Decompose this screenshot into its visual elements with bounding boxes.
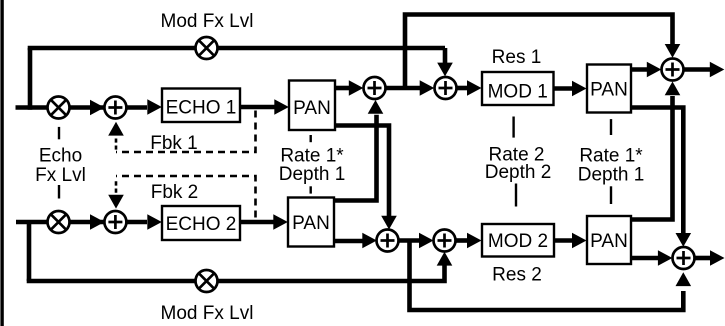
- svg-text:PAN: PAN: [590, 231, 628, 252]
- wire: PAN P3 top output to adder A4: [631, 67, 648, 72]
- multiplier X1 Echo Fx Lvl ch1: [48, 97, 70, 119]
- svg-text:Depth 2: Depth 2: [485, 162, 552, 183]
- wire: top mod rail (y=48): [28, 46, 445, 51]
- tick: below MOD 1: [512, 117, 514, 138]
- svg-text:MOD 1: MOD 1: [488, 82, 548, 103]
- wire: PAN P2 bottom output to adder A2': [334, 239, 363, 244]
- wire: ch2 bypass rail (junction down, y=310, up to output adder A4'): [410, 241, 684, 311]
- wire: PAN P3 bottom output down to adder A4': [631, 108, 683, 234]
- svg-text:PAN: PAN: [293, 98, 331, 119]
- arrowhead: into PAN P1: [274, 99, 289, 115]
- ECHO 2 box: [162, 206, 240, 240]
- wire: A2' to A3': [388, 238, 421, 243]
- wire: ch1 input: [16, 105, 116, 110]
- wire: ch1 branch up to top mod rail: [28, 48, 33, 110]
- adder A4 output sum ch1: [662, 59, 684, 81]
- PAN P3 box: [587, 65, 631, 113]
- wire: PAN P4 bottom output to adder A4': [631, 256, 659, 261]
- arrowhead: into adder A3: [420, 80, 435, 96]
- wire: A1 to ECHO 1: [115, 105, 147, 110]
- PAN P2 box: [288, 198, 334, 247]
- svg-text:Fbk 2: Fbk 2: [151, 182, 199, 203]
- arrowhead: into MOD 1: [467, 80, 482, 96]
- arrowhead: ch1 into adder A1: [90, 100, 105, 116]
- arrowhead: ch2 into adder A1': [90, 214, 105, 230]
- arrowhead: Fbk 1 up into adder A1: [108, 122, 124, 136]
- arrowhead: bottom rail up into adder A3': [437, 252, 453, 266]
- wire: ECHO 2 to PAN P2: [240, 220, 274, 225]
- arrowhead: into adder A2': [362, 233, 377, 249]
- feedback Fbk 1 dotted riser: [115, 139, 118, 150]
- svg-text:Res 1: Res 1: [492, 47, 542, 68]
- wire: ch2 branch down to bottom mod rail: [27, 220, 32, 281]
- ECHO 1 box: [162, 89, 240, 123]
- arrowhead: Fbk 2 down into adder A1': [108, 195, 124, 209]
- arrowhead: into PAN P4: [572, 233, 587, 249]
- PAN P4 box: [587, 216, 631, 264]
- arrowhead: down into adder A2': [381, 216, 397, 230]
- svg-text:Fbk 1: Fbk 1: [150, 133, 198, 154]
- arrowhead: into adder A4': [658, 250, 673, 266]
- wire: ch2 input: [16, 220, 115, 225]
- tick: below PAN P3: [610, 119, 612, 135]
- arrowhead: into adder A2: [349, 80, 364, 96]
- arrowhead: ch2 output: [710, 250, 725, 266]
- svg-text:PAN: PAN: [590, 80, 628, 101]
- svg-text:ECHO 1: ECHO 1: [166, 98, 237, 119]
- MOD 1 box: [482, 72, 554, 105]
- adder A1' ch2 feedback sum: [104, 211, 126, 233]
- tick: below multiplier X1: [58, 127, 60, 139]
- wire: A4' output: [695, 256, 711, 261]
- arrowhead: up into adder A4: [665, 82, 681, 96]
- svg-text:Depth 1: Depth 1: [578, 165, 645, 186]
- wire: PAN P1 top output to adder A2: [335, 86, 350, 91]
- tick: below Echo Fx Lvl label: [58, 185, 60, 199]
- svg-text:ECHO 2: ECHO 2: [166, 214, 237, 235]
- wire: A4 output: [684, 67, 711, 72]
- adder A2 pre-mod sum ch1: [364, 77, 386, 99]
- adder A3' mod input sum ch2: [434, 230, 456, 252]
- arrowhead: up into adder A2: [368, 100, 384, 114]
- svg-text:PAN: PAN: [292, 213, 330, 234]
- wire: MOD 1 to PAN P3: [554, 86, 574, 91]
- feedback Fbk 1 dashed path: [116, 111, 256, 153]
- wire: A1' to ECHO 2: [115, 220, 147, 225]
- left border frame: [0, 0, 3, 326]
- svg-text:Res 2: Res 2: [492, 265, 542, 286]
- arrowhead: down into adder A4: [665, 44, 681, 58]
- wire: PAN P4 top output up to adder A4: [631, 96, 673, 220]
- svg-text:Rate 1*: Rate 1*: [579, 146, 643, 167]
- arrowhead: into ECHO 1: [147, 99, 162, 115]
- multiplier X2 Echo Fx Lvl ch2: [48, 211, 70, 233]
- feedback Fbk 2 dashed path: [116, 176, 256, 218]
- wire: ch1 bypass rail (junction up, y=14.5, down to output adder A4): [405, 15, 673, 89]
- arrowhead: into adder A4: [647, 62, 662, 78]
- tick: below Depth 2 label: [515, 184, 517, 207]
- wire: top mod rail down into A3: [443, 48, 448, 63]
- svg-text:Mod Fx Lvl: Mod Fx Lvl: [161, 303, 254, 324]
- tick: below Depth 1 right label: [610, 186, 612, 204]
- arrowhead: up into adder A4': [676, 272, 692, 286]
- MOD 2 box: [482, 224, 554, 257]
- feedback Fbk 2 dotted riser: [115, 181, 118, 193]
- arrowhead: into ECHO 2: [147, 214, 162, 230]
- wire: A2 to A3: [375, 86, 422, 91]
- arrowhead: into adder A3': [419, 233, 434, 249]
- arrowhead: ch1 output: [710, 62, 725, 78]
- wire: MOD 2 to PAN P4: [554, 238, 573, 243]
- svg-text:Depth 1: Depth 1: [279, 164, 346, 185]
- svg-text:Echo: Echo: [39, 146, 82, 167]
- multiplier X4 Mod Fx Lvl bottom: [196, 270, 218, 292]
- adder A1 ch1 feedback sum: [104, 97, 126, 119]
- arrowhead: into MOD 2: [467, 233, 482, 249]
- svg-text:Fx Lvl: Fx Lvl: [35, 165, 86, 186]
- tick: below PAN P1: [310, 135, 312, 142]
- arrowhead: into PAN P2: [273, 214, 288, 230]
- adder A2' pre-mod sum ch2: [377, 230, 399, 252]
- adder A3 mod input sum ch1: [435, 77, 457, 99]
- svg-text:Mod Fx Lvl: Mod Fx Lvl: [161, 11, 254, 32]
- wire: ECHO 1 to PAN P1: [240, 105, 275, 110]
- multiplier X3 Mod Fx Lvl top: [196, 37, 218, 59]
- wire: PAN P1 bottom output down to adder A1'' (cross-feed): [335, 126, 389, 218]
- wire: PAN P2 top output up to adder A2 (cross-feed): [334, 115, 377, 201]
- arrowhead: down into adder A3: [437, 63, 453, 77]
- svg-text:MOD 2: MOD 2: [488, 231, 548, 252]
- PAN P1 box: [289, 81, 335, 131]
- tick: below Depth 1 left label: [310, 186, 312, 193]
- wire: A3' to MOD 2: [456, 238, 469, 243]
- arrowhead: into PAN P3: [572, 81, 587, 97]
- wire: A3 to MOD 1: [457, 86, 469, 91]
- adder A4' output sum ch2: [673, 247, 695, 269]
- arrowhead: down into adder A4': [676, 233, 692, 247]
- wire: bottom mod rail (y=281): [27, 266, 445, 282]
